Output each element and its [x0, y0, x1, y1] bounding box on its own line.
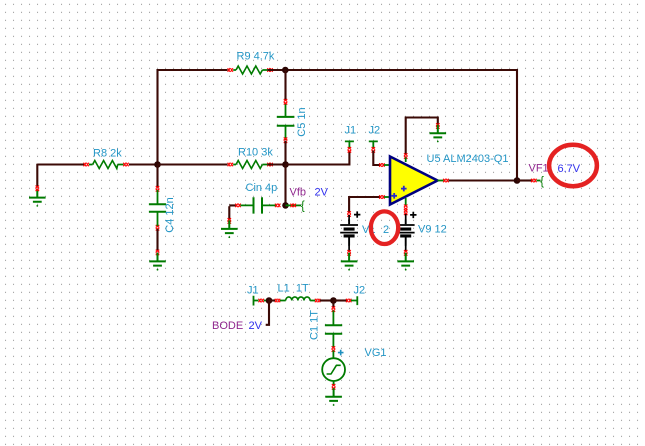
inductor L1 leads: [280, 300, 315, 302]
node D junction dot: [266, 297, 273, 304]
terminal mark top-right ground: [436, 123, 440, 128]
resistor R9 zigzag: [236, 66, 262, 74]
svg-text:2V: 2V: [249, 320, 263, 332]
svg-text:{: {: [301, 200, 305, 212]
ground (under VG1): [325, 388, 342, 406]
terminal mark op-amp IN+: [379, 195, 384, 199]
terminal mark Cin ground: [228, 218, 232, 223]
op-amp top pin green stub: [405, 158, 407, 163]
terminal mark left ground: [36, 186, 40, 191]
terminal mark VF1: [531, 179, 536, 183]
ground (under V1): [341, 253, 358, 271]
terminal mark op-amp top pin: [404, 153, 408, 158]
resistor R10 zigzag: [236, 161, 262, 169]
svg-text:J1: J1: [345, 125, 357, 137]
capacitor C4 leads: [157, 190, 159, 226]
wire: V1 bottom to ground: [348, 245, 350, 251]
svg-text:C5 1n: C5 1n: [296, 107, 308, 136]
svg-text:R9 4.7k: R9 4.7k: [237, 51, 275, 63]
terminal mark V1 top: [347, 211, 351, 216]
battery V9: [397, 220, 415, 246]
source VG1 circle: [322, 358, 345, 381]
svg-text:VG1: VG1: [365, 347, 387, 359]
wire: junction A up to R9 row: [158, 70, 228, 165]
wire stub to VF1 arc: [537, 180, 541, 182]
capacitor Cin leads: [240, 204, 275, 206]
op-amp bottom pin stub: [405, 198, 407, 207]
inductor L1 coil: [286, 297, 310, 301]
capacitor C1 leads: [332, 311, 334, 348]
wire: output to junction C: [449, 179, 518, 181]
wire: C1 to VG1: [332, 351, 334, 359]
wire: junction C to VF1 pin: [517, 179, 532, 181]
terminal marks L1: [275, 299, 280, 303]
terminal mark J1 bottom: [259, 299, 264, 303]
node E junction dot: [330, 297, 337, 304]
wire: node B down to capacitor C5: [284, 70, 286, 101]
wire: R10 right to node B2: [267, 163, 285, 165]
resistor R10 leads: [233, 164, 267, 166]
node B junction dot: [282, 67, 289, 74]
ground (under Cin): [221, 220, 238, 238]
svg-text:VF1: VF1: [529, 163, 549, 175]
wire: R8 right to junction A: [129, 163, 158, 165]
terminal marks Cin: [235, 204, 240, 208]
wire: left rail from left ground corner to R8: [37, 163, 84, 165]
wire: node E down to C1: [332, 301, 334, 308]
node C junction dot: [514, 177, 521, 184]
svg-text:U5 ALM2403-Q1: U5 ALM2403-Q1: [427, 153, 509, 165]
wire: J2 down to op-amp inverting input: [373, 151, 380, 166]
ground (top right, op-amp ref): [430, 125, 447, 143]
terminal mark J2 bottom: [346, 299, 351, 303]
capacitor C5 plates: [277, 117, 295, 126]
svg-text:BODE: BODE: [212, 320, 243, 332]
plus sign VG1: [338, 350, 344, 356]
battery V9 top lead: [405, 214, 407, 220]
terminal mark C1 top: [332, 306, 336, 311]
wire: node D down to BODE meter pin: [266, 301, 269, 325]
terminal mark Vfb: [291, 204, 296, 208]
wire: junction A to R10: [158, 163, 228, 165]
terminal marks R10: [228, 163, 233, 167]
node A junction dot: [154, 161, 161, 168]
svg-text:J1: J1: [247, 285, 259, 297]
ground (under V9): [397, 253, 414, 271]
wire: node B right and down to output junction C: [285, 70, 517, 181]
svg-text:L1 1T: L1 1T: [278, 283, 309, 295]
ground (left, under input rail): [29, 189, 46, 207]
plus sign V9: [410, 212, 416, 218]
battery V1: [348, 215, 350, 221]
wire: node B2 to jumper J1: [286, 151, 350, 165]
jumper J2 (top): [369, 141, 378, 148]
svg-text:2: 2: [383, 224, 389, 236]
terminal mark V9 bottom: [404, 250, 408, 255]
terminal marks C4: [156, 186, 160, 191]
terminal marks op-amp bottom pin / V9 top: [404, 205, 408, 210]
op-amp U5 triangle: [390, 157, 438, 205]
svg-text:C1 1T: C1 1T: [309, 310, 321, 340]
wire: battery V1 to op-amp non-inverting input: [349, 197, 380, 213]
svg-text:2V: 2V: [315, 187, 329, 199]
node Cin/Vfb junction dot: [282, 202, 289, 209]
wire: C4 bottom to ground: [156, 229, 158, 251]
jumper J2 (bottom): [351, 296, 357, 305]
op-amp output stub: [438, 180, 444, 182]
svg-text:J2: J2: [369, 125, 381, 137]
wire: Cin ground leg: [229, 205, 236, 219]
terminal marks R9: [228, 68, 233, 72]
wire: junction to Vfb pin: [286, 204, 302, 206]
svg-text:R8 2k: R8 2k: [93, 148, 122, 160]
node B2 junction dot: [282, 161, 289, 168]
jumper J1 (bottom): [254, 296, 259, 306]
resistor R9 leads: [233, 69, 267, 71]
wire: node B2 down to Cin node: [284, 165, 286, 206]
source VG1 waveform glyph: [327, 365, 341, 374]
annotation red circle around 6.7V: [549, 145, 597, 186]
terminal marks R8: [84, 163, 89, 167]
svg-text:V9 12: V9 12: [418, 224, 447, 236]
terminal mark VG1 top: [332, 346, 336, 351]
capacitor C5 leads: [285, 104, 287, 141]
svg-text:Vfb: Vfb: [290, 187, 307, 199]
resistor R8 zigzag: [93, 161, 118, 169]
jumper J1 (top): [345, 141, 354, 148]
annotation red circle around V1 value: [371, 211, 398, 244]
op-amp IN- pin stub: [384, 164, 390, 166]
terminal mark VG1 bottom: [332, 384, 336, 389]
wire: node D to L1: [269, 299, 275, 301]
capacitor Cin plates: [254, 197, 263, 213]
svg-text:R10 3k: R10 3k: [238, 147, 273, 159]
wire: node E to J2: [333, 299, 347, 301]
capacitor C1 plates: [325, 325, 342, 334]
ground (under C4): [149, 253, 166, 271]
terminal mark V1 bottom: [347, 250, 351, 255]
svg-text:6.7V: 6.7V: [558, 163, 581, 175]
op-amp top pin wire to vref ground: [406, 118, 438, 155]
wire: V9 bottom to ground: [405, 245, 407, 251]
svg-text:{: {: [540, 176, 544, 188]
wire: VG1 bottom: [333, 381, 335, 385]
terminal mark output: [443, 179, 448, 183]
svg-text:J2: J2: [354, 285, 366, 297]
wire: L1 to node E: [320, 299, 333, 301]
wire: C5 bottom to node B2: [284, 141, 286, 165]
wire: C4 top lead from node A: [156, 165, 158, 188]
resistor R8 leads: [89, 164, 124, 166]
terminal marks C5: [284, 99, 288, 104]
capacitor C4 plates: [149, 204, 166, 212]
op-amp plus marks: [391, 186, 406, 199]
terminal mark J1: [348, 147, 352, 152]
terminal mark C4 ground: [156, 250, 160, 255]
terminal mark J2: [372, 147, 376, 152]
svg-text:C4 12n: C4 12n: [164, 197, 176, 232]
op-amp IN+ pin stub: [384, 196, 390, 198]
wire: left ground drop: [36, 164, 38, 188]
svg-text:Cin 4p: Cin 4p: [246, 182, 278, 194]
terminal mark op-amp IN-: [379, 163, 384, 167]
wire: R9 right to node B: [267, 69, 285, 71]
wire: J1 to node D: [264, 300, 269, 302]
plus sign V1: [354, 211, 360, 217]
